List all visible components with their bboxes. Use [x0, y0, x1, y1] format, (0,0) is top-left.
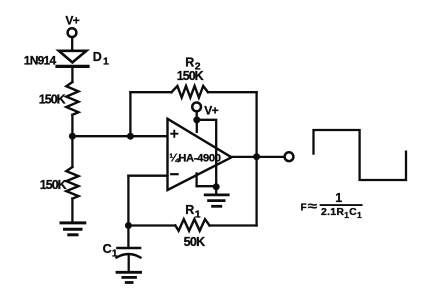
formula fraction bar — [321, 204, 362, 206]
op-amp - symbol — [171, 173, 177, 175]
wire resistor to node — [71, 115, 73, 136]
wire node to C1 — [127, 226, 129, 248]
wire R2 left vertical — [129, 92, 131, 136]
output square waveform — [314, 130, 407, 180]
svg-text:R1: R1 — [185, 203, 200, 220]
wire R2 left horizontal — [130, 91, 171, 93]
svg-text:¼HA-4900: ¼HA-4900 — [169, 152, 220, 164]
wire ground dot stub — [215, 187, 217, 194]
op-amp U1 triangle — [168, 119, 232, 190]
ground (C1) — [117, 272, 141, 282]
wire V+ to diode anode — [71, 38, 73, 51]
diode D1 (1N914) — [57, 51, 88, 67]
svg-text:1: 1 — [335, 191, 342, 205]
resistor R2 150K — [172, 86, 209, 98]
output wire — [232, 156, 285, 158]
op-amp supply bend to ground dot — [197, 185, 217, 187]
ground (op-amp) — [205, 195, 228, 206]
svg-text:D1: D1 — [93, 50, 109, 68]
resistor 150K (upper left) — [66, 82, 78, 115]
wire node to lower resistor — [71, 136, 73, 167]
wire diode cathode to resistor — [71, 68, 73, 82]
wire feedback vertical (output to R1) — [255, 157, 257, 226]
op-amp ground pin stub — [195, 173, 197, 186]
V+ terminal (op-amp) — [192, 103, 218, 118]
svg-text:F: F — [301, 203, 307, 214]
wire resistor to ground — [71, 199, 73, 222]
svg-text:V+: V+ — [65, 14, 79, 28]
node dot under op-amp V+ — [193, 116, 200, 123]
op-amp V+ supply line (left vertical through triangle) — [196, 120, 198, 132]
wire R1 right horizontal — [210, 224, 257, 226]
op-amp + symbol — [171, 131, 177, 137]
formula F ≈ 1/(2.1 R1C1) — [301, 191, 363, 220]
node dot (C1 / R1 / - input) — [125, 222, 132, 229]
svg-text:V+: V+ — [204, 104, 218, 118]
wire R2 right vertical down to output — [255, 92, 257, 157]
svg-text:150K: 150K — [177, 69, 204, 83]
svg-text:50K: 50K — [184, 235, 206, 249]
wire R2 right horizontal — [208, 91, 257, 93]
op-amp label ¼HA-4900 — [169, 152, 220, 164]
svg-text:150K: 150K — [39, 93, 66, 107]
wire C1 to ground — [128, 256, 130, 271]
node dot op-amp ground — [213, 183, 220, 190]
output terminal circle — [285, 152, 294, 161]
resistor R1 50K — [175, 219, 209, 231]
svg-text:≈: ≈ — [308, 199, 318, 213]
V+ terminal (left branch) — [65, 14, 79, 37]
wire R1 left to node — [128, 224, 175, 226]
op-amp right supply loop — [197, 120, 216, 187]
svg-text:2.1R1C1: 2.1R1C1 — [321, 206, 362, 220]
svg-text:C1: C1 — [103, 242, 118, 259]
node dot (R2 tap on + input) — [127, 133, 134, 140]
capacitor C1 — [117, 248, 141, 258]
resistor 150K (lower left) — [66, 167, 78, 199]
node junction dot (left divider tap) — [69, 133, 76, 140]
svg-text:150K: 150K — [40, 178, 67, 192]
wire - input vertical — [127, 176, 129, 226]
svg-text:1N914: 1N914 — [24, 54, 57, 68]
wire divider tap to op-amp + input — [72, 135, 167, 137]
wire op-amp V+ circle to dot — [196, 112, 198, 121]
ground (left branch) — [61, 223, 85, 235]
wire - input horizontal — [128, 175, 167, 177]
node dot (output) — [253, 153, 260, 160]
